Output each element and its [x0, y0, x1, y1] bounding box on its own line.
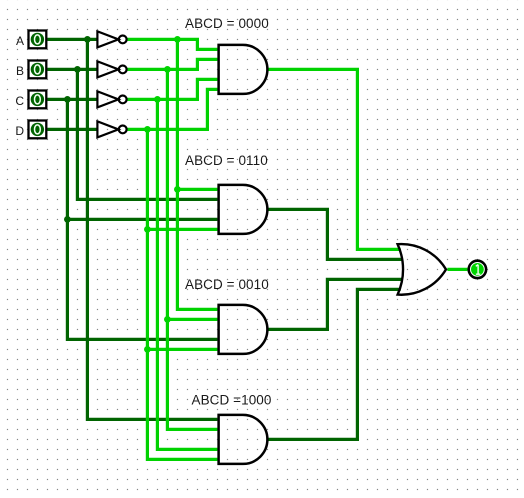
svg-text:ABCD = 0000: ABCD = 0000: [185, 16, 269, 31]
svg-text:A: A: [16, 34, 24, 48]
svg-text:D: D: [15, 124, 24, 138]
svg-text:C: C: [15, 94, 24, 108]
svg-text:ABCD = 0010: ABCD = 0010: [185, 277, 269, 292]
svg-text:B: B: [16, 64, 24, 78]
svg-text:ABCD = 0110: ABCD = 0110: [185, 153, 268, 168]
svg-text:ABCD =1000: ABCD =1000: [192, 393, 272, 408]
